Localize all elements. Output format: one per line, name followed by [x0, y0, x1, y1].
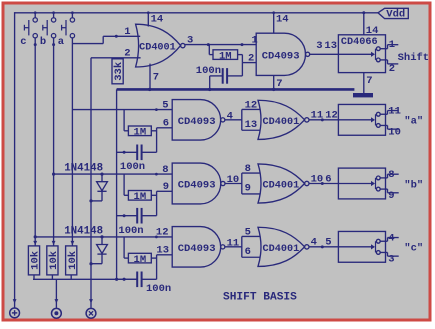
- svg-text:CD4093: CD4093: [178, 180, 216, 192]
- svg-text:7: 7: [153, 71, 159, 83]
- capacitor 100n row b: [136, 208, 138, 224]
- junction on rail at CD4066 pin14: [362, 11, 365, 14]
- resistor 1M row c: [123, 237, 125, 258]
- wire input row b: [54, 173, 173, 175]
- svg-text:"a": "a": [404, 116, 423, 128]
- wire NOR input box row b: [241, 173, 243, 194]
- wire input row a: [72, 109, 172, 111]
- svg-text:10: 10: [311, 173, 324, 185]
- svg-text:2: 2: [124, 48, 130, 60]
- pin 7 stub U1: [273, 75, 275, 89]
- svg-text:1N4148: 1N4148: [64, 163, 103, 175]
- svg-text:CD4001: CD4001: [263, 117, 300, 128]
- svg-text:3: 3: [388, 253, 394, 265]
- node pin2 net corner: [91, 57, 141, 59]
- wire 4001 out row a: [309, 119, 338, 121]
- svg-text:10k: 10k: [67, 251, 79, 270]
- svg-text:1M: 1M: [219, 50, 232, 62]
- wire out bottom row b: [380, 188, 387, 190]
- ground symbol: [353, 93, 373, 97]
- power flag Vdd: [378, 8, 408, 18]
- svg-text:Shift: Shift: [398, 52, 430, 64]
- svg-text:CD4001: CD4001: [263, 244, 300, 255]
- svg-text:4: 4: [311, 237, 317, 249]
- wire to terminal circle: [55, 279, 57, 308]
- wire out top row b: [380, 177, 387, 179]
- resistor 33k: [112, 59, 123, 84]
- svg-text:3: 3: [187, 35, 193, 47]
- wire pin bottom row b: [157, 190, 173, 192]
- svg-text:11: 11: [227, 237, 240, 249]
- wire Shift out 1: [380, 48, 387, 50]
- op CD4001 row a: [258, 100, 305, 139]
- svg-text:1N4148: 1N4148: [64, 226, 103, 238]
- op CD4001 gate A (U2A): [136, 24, 181, 67]
- svg-text:11: 11: [388, 105, 401, 117]
- svg-text:14: 14: [366, 25, 379, 37]
- resistor 10k col b: [47, 246, 58, 275]
- resistor 10k col a: [66, 246, 77, 275]
- resistor R1 1M: [208, 45, 210, 55]
- junction bus C1: [208, 88, 211, 91]
- wire Vdd top rail: [15, 12, 378, 14]
- svg-text:a: a: [58, 36, 65, 48]
- svg-text:13: 13: [324, 40, 337, 52]
- svg-text:13: 13: [156, 245, 169, 257]
- svg-text:10: 10: [227, 174, 240, 186]
- svg-text:SHIFT BASIS: SHIFT BASIS: [223, 292, 297, 304]
- op CD4093 row a: [172, 100, 220, 141]
- pin 14 stub SW: [363, 13, 365, 35]
- wire Shift out 2: [380, 59, 387, 61]
- svg-text:100n: 100n: [120, 161, 145, 173]
- svg-text:1M: 1M: [134, 191, 147, 203]
- pin 7 stub SW: [363, 73, 365, 93]
- switch 4066 row a: [338, 104, 385, 135]
- wire pin bottom row c: [157, 254, 173, 256]
- pin 14 stub U1: [273, 13, 275, 33]
- svg-text:CD4066: CD4066: [341, 37, 378, 48]
- switch IC CD4066 section A: [338, 35, 385, 73]
- wire C1 right to pin2: [227, 75, 242, 77]
- svg-text:8: 8: [245, 163, 251, 175]
- pin 14 stub U2: [147, 13, 149, 27]
- wire column a: [71, 37, 73, 246]
- switch S-a: [71, 13, 73, 18]
- svg-text:"c": "c": [404, 243, 423, 255]
- wire 4093 out row c: [225, 246, 242, 248]
- svg-text:CD4093: CD4093: [178, 116, 216, 128]
- svg-text:14: 14: [151, 13, 164, 25]
- wire out bottom row c: [380, 251, 387, 253]
- switch S-c: [34, 13, 36, 18]
- op CD4093 row b: [172, 163, 221, 204]
- wire C1 left to bus: [210, 75, 223, 77]
- svg-text:7: 7: [366, 75, 372, 87]
- diode D-b 1N4148: [100, 173, 103, 176]
- svg-text:CD4001: CD4001: [263, 181, 300, 192]
- svg-text:12: 12: [156, 227, 169, 239]
- wire out top row c: [380, 240, 387, 242]
- svg-text:1M: 1M: [134, 127, 147, 139]
- svg-text:6: 6: [163, 118, 169, 130]
- capacitor 100n row a: [136, 145, 138, 161]
- svg-text:10k: 10k: [48, 251, 60, 270]
- op CD4093 row c: [172, 227, 220, 268]
- svg-text:2: 2: [389, 63, 395, 75]
- svg-text:10: 10: [388, 126, 401, 138]
- wire U2A out to U1A in: [185, 44, 256, 46]
- svg-text:13: 13: [245, 119, 258, 131]
- svg-text:6: 6: [245, 246, 251, 258]
- wire NOR input box row c: [241, 236, 243, 257]
- resistor 10k col c: [28, 246, 39, 275]
- diode D-c 1N4148: [100, 235, 103, 238]
- wire 4001 out row b: [309, 183, 338, 185]
- svg-text:CD4093: CD4093: [262, 51, 300, 63]
- capacitor C1 100n: [222, 68, 224, 84]
- wire U1A out to SW1 pin13: [310, 53, 339, 55]
- wire R1 to U1 pin2: [241, 55, 243, 63]
- svg-text:12: 12: [325, 110, 338, 122]
- svg-text:b: b: [40, 36, 46, 48]
- switch S-b: [53, 13, 55, 18]
- resistor 1M row b: [123, 174, 125, 195]
- svg-text:100n: 100n: [146, 283, 171, 295]
- wire 4093 out row b: [225, 183, 242, 185]
- svg-text:CD4001: CD4001: [139, 43, 176, 54]
- wire out bottom row a: [380, 124, 387, 126]
- svg-text:4: 4: [388, 232, 394, 244]
- svg-text:1: 1: [389, 39, 395, 51]
- resistor 1M row a: [123, 110, 125, 131]
- wire column b: [53, 37, 55, 246]
- svg-text:5: 5: [162, 99, 168, 111]
- junction bus pin7-U2: [148, 88, 151, 91]
- svg-text:CD4093: CD4093: [178, 243, 216, 255]
- svg-text:c: c: [20, 36, 26, 48]
- wire 4001 out row c: [309, 246, 338, 248]
- switch 4066 row c: [338, 231, 385, 262]
- svg-text:8: 8: [388, 169, 394, 181]
- wire column c: [34, 37, 36, 246]
- svg-text:100n: 100n: [118, 225, 143, 237]
- svg-text:14: 14: [276, 13, 289, 25]
- pin 7 stub U2: [149, 64, 151, 90]
- switch 4066 row b: [338, 168, 385, 199]
- svg-text:9: 9: [163, 181, 169, 193]
- svg-text:5: 5: [245, 226, 251, 238]
- op CD4001 row b: [258, 164, 305, 203]
- wire out top row a: [380, 113, 387, 115]
- op CD4001 row c: [258, 227, 305, 266]
- svg-text:33k: 33k: [113, 62, 125, 81]
- terminal circle-dot: [55, 299, 59, 303]
- svg-text:10k: 10k: [30, 251, 42, 270]
- wire input row c: [35, 236, 172, 238]
- capacitor 100n row c: [136, 272, 138, 288]
- svg-text:9: 9: [245, 183, 251, 195]
- svg-text:9: 9: [388, 190, 394, 202]
- junction bus pin7-U1: [272, 88, 275, 91]
- svg-text:12: 12: [245, 99, 258, 111]
- svg-text:3: 3: [316, 40, 322, 52]
- svg-text:4: 4: [227, 110, 233, 122]
- svg-text:Vdd: Vdd: [386, 9, 405, 21]
- wire left rail: [14, 12, 16, 308]
- svg-text:5: 5: [325, 237, 331, 249]
- terminal plus: [13, 299, 17, 303]
- wire pin bottom row a: [157, 127, 173, 129]
- wire 10k common to ground: [33, 278, 137, 280]
- svg-text:1M: 1M: [134, 254, 147, 266]
- wire ground bus: [117, 88, 355, 91]
- svg-text:2: 2: [248, 52, 254, 64]
- svg-text:6: 6: [325, 173, 331, 185]
- wire ground column: [116, 89, 118, 279]
- svg-text:11: 11: [311, 110, 324, 122]
- wire switch-a to U2 pin1: [72, 43, 103, 45]
- terminal cross: [89, 299, 93, 303]
- wire NOR input box row a: [241, 109, 243, 130]
- svg-text:"b": "b": [404, 179, 423, 191]
- op CD4093 gate A (U1A): [256, 33, 305, 75]
- svg-text:8: 8: [162, 164, 168, 176]
- wire 4093 out row a: [225, 119, 242, 121]
- svg-text:1: 1: [124, 26, 130, 38]
